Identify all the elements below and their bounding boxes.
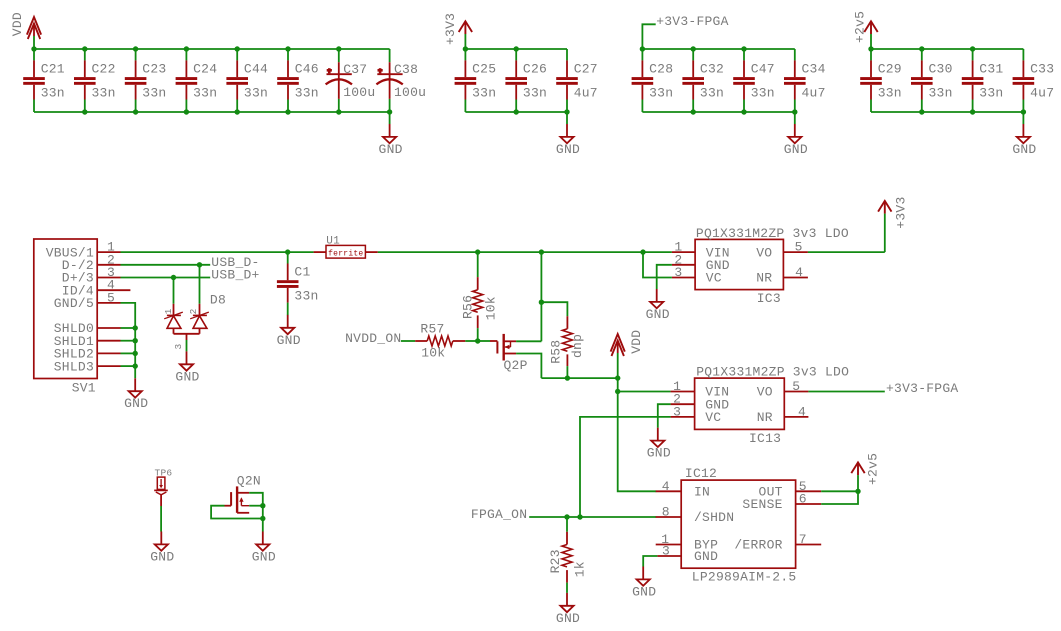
svg-text:GND: GND <box>784 142 808 157</box>
svg-text:GND/5: GND/5 <box>54 296 94 311</box>
svg-text:Q2N: Q2N <box>237 473 261 488</box>
capacitor C28 33n <box>632 49 674 112</box>
svg-text:NVDD_ON: NVDD_ON <box>345 331 401 346</box>
wire +2v5 top rail <box>871 48 1023 50</box>
svg-text:33n: 33n <box>523 86 547 101</box>
svg-text:3: 3 <box>673 404 681 419</box>
svg-text:+3V3: +3V3 <box>443 13 458 45</box>
wire +3V3-FPGA bottom rail <box>642 111 794 113</box>
power flag +3V3 (IC3 output) <box>878 196 909 252</box>
svg-text:GND: GND <box>277 333 301 348</box>
junctions +2v5 rail <box>868 46 1026 114</box>
capacitor C31 33n <box>962 49 1004 112</box>
svg-text:C32: C32 <box>700 62 724 77</box>
net label USB_D+ <box>211 268 259 283</box>
svg-text:10k: 10k <box>421 346 445 361</box>
capacitor C1 33n <box>277 252 319 315</box>
junction +2v5 output <box>855 489 860 494</box>
wire USB_D+ net <box>121 277 211 279</box>
wire IC13 VO output <box>808 391 884 393</box>
svg-text:VO: VO <box>756 245 772 260</box>
svg-text:+3V3-FPGA: +3V3-FPGA <box>886 381 958 396</box>
wire FPGA_ON to IC12 <box>529 516 656 518</box>
svg-text:GND: GND <box>646 307 670 322</box>
wire IC12 SENSE to +2v5 <box>821 491 858 504</box>
wire SV1 GND/5 to shield ground <box>121 303 136 378</box>
svg-text:4: 4 <box>795 265 803 280</box>
resistor R58 dnp <box>548 316 585 366</box>
junctions Q2N source/bulk <box>260 503 265 521</box>
svg-text:C38: C38 <box>394 62 418 77</box>
op-amp/regulator IC3 PQ1X331M2ZP <box>672 226 849 306</box>
svg-text:+2v5: +2v5 <box>852 11 867 43</box>
capacitor C26 33n <box>505 49 547 112</box>
wire +2v5 bottom rail <box>871 111 1023 113</box>
svg-text:C1: C1 <box>294 265 310 280</box>
svg-text:+3V3-FPGA: +3V3-FPGA <box>656 14 728 29</box>
resistor R57 10k <box>415 322 465 361</box>
svg-text:GND: GND <box>647 446 671 461</box>
svg-text:GND: GND <box>124 396 148 411</box>
svg-text:33n: 33n <box>92 86 116 101</box>
wire VDD bottom rail <box>34 111 390 113</box>
svg-text:3: 3 <box>662 543 670 558</box>
svg-text:6: 6 <box>799 492 807 507</box>
connector SV1 body <box>34 239 97 396</box>
junction C1 tap <box>285 249 290 254</box>
svg-text:C31: C31 <box>979 62 1003 77</box>
ground below R23 <box>556 593 580 626</box>
svg-text:GND: GND <box>1012 142 1036 157</box>
capacitor C29 33n <box>860 49 902 112</box>
svg-text:C29: C29 <box>878 62 902 77</box>
ground below IC3 <box>646 289 670 322</box>
svg-text:10k: 10k <box>483 296 498 320</box>
ground below SV1 <box>124 378 148 411</box>
svg-text:VC: VC <box>706 271 722 286</box>
wire branch to R58 <box>541 302 567 316</box>
junction on USB_D+ <box>171 275 176 280</box>
svg-text:C25: C25 <box>472 62 496 77</box>
wire Q2P source to VDD vertical <box>516 340 541 342</box>
wire Q2N drain down <box>249 493 263 532</box>
junctions +3V3 rail <box>463 46 570 114</box>
svg-text:VC: VC <box>705 410 721 425</box>
svg-text:C21: C21 <box>41 62 65 77</box>
power flag +2v5 (top) <box>852 11 877 49</box>
svg-text:33n: 33n <box>472 86 496 101</box>
capacitor C38 100u (polarized) <box>376 49 426 112</box>
svg-text:IC12: IC12 <box>685 466 717 481</box>
wire NVDD vertical to IC12 IN <box>618 378 657 491</box>
svg-text:VO: VO <box>757 385 773 400</box>
svg-text:4u7: 4u7 <box>802 86 826 101</box>
wire Q2N bulk tie <box>249 505 263 507</box>
wire +3V3-FPGA top rail <box>642 48 794 50</box>
svg-text:USB_D+: USB_D+ <box>211 268 259 283</box>
svg-text:33n: 33n <box>294 289 318 304</box>
power flag +2v5 (IC12 output) <box>851 453 880 492</box>
svg-text:C23: C23 <box>142 62 166 77</box>
wire D8 pin3 to ground <box>186 340 188 351</box>
svg-text:C27: C27 <box>574 62 598 77</box>
wire IC3 VO to +3V3 <box>808 251 885 253</box>
transistor Q2P (P-MOSFET) <box>490 334 528 373</box>
svg-text:GND: GND <box>150 549 174 564</box>
svg-text:Q2P: Q2P <box>504 358 528 373</box>
wire IC12 GND pin <box>643 556 657 567</box>
diode D8 (dual ESD diode) <box>163 265 226 350</box>
svg-text:ferrite: ferrite <box>328 249 363 258</box>
junction on USB_D- <box>197 262 202 267</box>
capacitor C37 100u (polarized) <box>326 49 376 112</box>
svg-text:4: 4 <box>662 479 670 494</box>
svg-text:IC3: IC3 <box>757 291 781 306</box>
svg-text:33n: 33n <box>649 86 673 101</box>
svg-text:5: 5 <box>792 379 800 394</box>
svg-text:FPGA_ON: FPGA_ON <box>471 507 527 522</box>
wire to IC13 VIN <box>618 391 671 393</box>
svg-text:SENSE: SENSE <box>742 497 782 512</box>
svg-text:3: 3 <box>674 265 682 280</box>
wire VBUS from SV1 pin1 to U1 <box>121 251 314 253</box>
resistor R56 10k <box>460 252 498 341</box>
resistor R23 1k <box>548 517 587 593</box>
ground below C34 <box>784 112 808 157</box>
svg-text:VDD: VDD <box>10 12 25 36</box>
svg-text:+3V3: +3V3 <box>894 196 909 228</box>
capacitor C34 4u7 <box>784 49 826 112</box>
capacitor C47 33n <box>733 49 775 112</box>
regulator IC13 PQ1X331M2ZP <box>671 365 850 447</box>
svg-text:NR: NR <box>757 410 773 425</box>
power flag +3V3 (top) <box>443 13 472 49</box>
svg-text:3: 3 <box>173 344 184 350</box>
junction gate node <box>475 338 480 343</box>
capacitor C32 33n <box>682 49 724 112</box>
svg-text:GND: GND <box>252 549 276 564</box>
svg-text:GND: GND <box>379 142 403 157</box>
net label NVDD_ON <box>345 331 401 346</box>
svg-text:SHLD3: SHLD3 <box>54 359 94 374</box>
ground below D8 <box>175 351 199 384</box>
svg-text:R58: R58 <box>548 340 563 364</box>
regulator IC12 LP2989AIM-2.5 <box>656 466 822 585</box>
net label +3V3-FPGA (IC13 output) <box>886 381 958 396</box>
svg-text:/ERROR: /ERROR <box>734 538 782 553</box>
wire IC12 OUT to +2v5 <box>821 490 858 492</box>
svg-text:33n: 33n <box>295 86 319 101</box>
capacitor C25 33n <box>455 49 497 112</box>
capacitor C24 33n <box>176 49 218 112</box>
connector SV1 shield pins <box>54 321 135 374</box>
wire R57 to gate node <box>465 340 477 342</box>
junction IC13 VIN tap <box>615 389 620 394</box>
svg-text:SV1: SV1 <box>72 381 96 396</box>
svg-text:C37: C37 <box>343 62 367 77</box>
svg-text:33n: 33n <box>193 86 217 101</box>
svg-text:33n: 33n <box>979 86 1003 101</box>
svg-text:C34: C34 <box>802 62 826 77</box>
svg-text:GND: GND <box>175 369 199 384</box>
test point TP6 <box>154 467 172 531</box>
junctions VDD rail <box>31 46 392 114</box>
svg-text:VDD: VDD <box>629 330 644 354</box>
capacitor C21 33n <box>23 49 65 112</box>
svg-text:33n: 33n <box>244 86 268 101</box>
svg-text:1k: 1k <box>572 561 587 577</box>
junctions FPGA_ON net <box>564 514 582 519</box>
wire Q2P drain down <box>516 354 541 379</box>
ground below C1 <box>277 315 301 348</box>
wire VDD top rail <box>34 48 390 50</box>
wire IC13 VC to FPGA_ON <box>580 417 671 517</box>
junctions on VDD net <box>475 249 646 254</box>
ground below C33 <box>1012 112 1036 157</box>
svg-text:33n: 33n <box>142 86 166 101</box>
svg-text:33n: 33n <box>751 86 775 101</box>
svg-text:C44: C44 <box>244 62 268 77</box>
svg-text:R57: R57 <box>420 322 444 337</box>
ground below C38 <box>379 112 403 157</box>
svg-text:C33: C33 <box>1030 62 1054 77</box>
ground below TP6 <box>150 532 174 565</box>
capacitor C30 33n <box>911 49 953 112</box>
power flag VDD (middle) <box>611 330 645 378</box>
svg-text:LP2989AIM-2.5: LP2989AIM-2.5 <box>692 570 797 585</box>
connector SV1 pins 1-5 <box>46 240 131 312</box>
ground below IC12 <box>632 567 656 600</box>
junctions +3V3-FPGA rail <box>640 46 798 114</box>
svg-text:4u7: 4u7 <box>574 86 598 101</box>
junctions shield net <box>133 325 138 369</box>
svg-text:dnp: dnp <box>570 334 585 358</box>
svg-text:C30: C30 <box>929 62 953 77</box>
capacitor C23 33n <box>125 49 167 112</box>
svg-text:+2v5: +2v5 <box>865 453 880 485</box>
svg-text:5: 5 <box>795 240 803 255</box>
svg-text:33n: 33n <box>41 86 65 101</box>
svg-text:4u7: 4u7 <box>1030 86 1054 101</box>
svg-text:5: 5 <box>107 290 115 305</box>
svg-text:33n: 33n <box>929 86 953 101</box>
svg-text:PQ1X331M2ZP 3v3 LDO: PQ1X331M2ZP 3v3 LDO <box>696 226 849 241</box>
wire VDD net after U1 <box>378 251 672 253</box>
wire NVDD_ON to R57 <box>401 340 415 342</box>
wire R58 to NVDD rail <box>566 366 568 378</box>
capacitor C27 4u7 <box>556 49 598 112</box>
svg-text:C46: C46 <box>295 62 319 77</box>
svg-text:C22: C22 <box>92 62 116 77</box>
ground below Q2N <box>252 532 276 565</box>
wire gate node to Q2P <box>478 340 490 342</box>
svg-text:C28: C28 <box>649 62 673 77</box>
svg-text:IC13: IC13 <box>749 431 781 446</box>
wire Q2N gate loop <box>211 506 263 519</box>
ferrite bead U1 <box>314 236 378 259</box>
junction R58 branch <box>539 300 544 305</box>
svg-text:C47: C47 <box>751 62 775 77</box>
svg-text:C26: C26 <box>523 62 547 77</box>
svg-text:33n: 33n <box>700 86 724 101</box>
capacitor C46 33n <box>277 49 319 112</box>
svg-text:7: 7 <box>799 532 807 547</box>
wire IC13 GND pin <box>658 404 671 428</box>
svg-text:/SHDN: /SHDN <box>694 510 734 525</box>
wire USB_D- net <box>121 264 211 266</box>
capacitor C44 33n <box>226 49 268 112</box>
svg-text:U1: U1 <box>326 236 340 248</box>
svg-text:GND: GND <box>632 584 656 599</box>
capacitor C33 4u7 <box>1013 49 1055 112</box>
svg-text:100u: 100u <box>343 85 375 100</box>
wire +3V3 bottom rail <box>465 111 567 113</box>
svg-text:D8: D8 <box>210 293 226 308</box>
svg-text:2: 2 <box>188 308 199 314</box>
svg-text:100u: 100u <box>394 85 426 100</box>
svg-text:R23: R23 <box>548 549 563 573</box>
wire +3V3 top rail <box>465 48 567 50</box>
svg-text:GND: GND <box>556 142 580 157</box>
ground below IC13 <box>647 428 671 461</box>
capacitor C22 33n <box>74 49 116 112</box>
wire NVDD bottom rail <box>541 377 617 379</box>
svg-text:33n: 33n <box>878 86 902 101</box>
wire VDD vertical to Q2P <box>540 252 542 341</box>
net label +3V3-FPGA (top) <box>642 14 728 49</box>
svg-text:NR: NR <box>756 271 772 286</box>
svg-text:8: 8 <box>662 505 670 520</box>
wire IC3 GND pin <box>657 265 672 289</box>
svg-text:PQ1X331M2ZP 3v3 LDO: PQ1X331M2ZP 3v3 LDO <box>696 365 849 380</box>
ground below C27 <box>556 112 580 157</box>
svg-text:C24: C24 <box>193 62 217 77</box>
power flag VDD (top-left) <box>10 12 41 49</box>
transistor Q2N (N-MOSFET) <box>225 473 261 513</box>
net label FPGA_ON <box>471 507 527 522</box>
svg-text:IN: IN <box>694 485 710 500</box>
svg-text:GND: GND <box>556 611 580 626</box>
svg-text:GND: GND <box>694 549 718 564</box>
svg-text:R56: R56 <box>460 295 475 319</box>
wire IC3 VC loop to VIN <box>643 252 672 277</box>
svg-text:4: 4 <box>798 404 806 419</box>
junctions NVDD bottom rail <box>565 375 621 380</box>
svg-text:1: 1 <box>163 308 174 314</box>
net label USB_D- <box>211 255 259 270</box>
